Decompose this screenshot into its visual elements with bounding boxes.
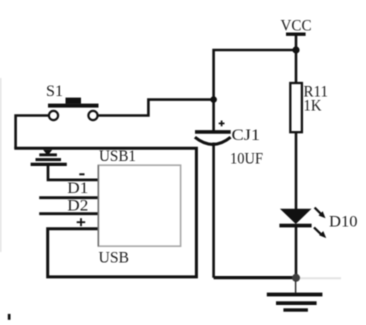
wire: node A up and across to VCC node	[214, 50, 296, 100]
node A junction dot	[210, 96, 217, 103]
wire: capacitor CJ1 to bottom run	[212, 143, 215, 278]
capacitor CJ1 top plate	[195, 130, 231, 134]
wire: outer loop (bottom net) top run, right side, bottom run, left riser and + pin	[14, 148, 196, 277]
wire: ground to minus pin	[48, 166, 98, 180]
connector USB1 body	[98, 165, 180, 246]
capacitor CJ1 curved plate	[195, 137, 231, 144]
switch S1 button cap	[66, 98, 82, 104]
ground (right) bar 1	[267, 293, 323, 297]
wire: S1 left terminal to left vertical drop	[16, 116, 49, 149]
corner mark	[8, 314, 11, 320]
edge artifact left border	[0, 78, 2, 252]
svg-text:D10: D10	[329, 213, 358, 230]
LED D10 cathode bar	[279, 224, 311, 228]
VCC node junction dot	[292, 46, 299, 53]
svg-text:CJ1: CJ1	[232, 127, 261, 144]
wire: VCC bar stub	[295, 34, 298, 50]
resistor R11 body	[290, 83, 302, 132]
pin wire D1	[39, 196, 98, 199]
svg-text:D2: D2	[67, 197, 88, 214]
svg-text:1K: 1K	[304, 98, 322, 115]
wire: VCC node to resistor R11	[295, 50, 298, 84]
ground (right) bar 2	[276, 301, 317, 305]
pin label plus	[77, 218, 86, 226]
wire: LED to ground junction	[295, 224, 298, 278]
ground (left) bar 2	[36, 158, 62, 161]
ground junction dot	[292, 274, 300, 282]
wire: bottom run from capacitor to ground junction	[214, 276, 297, 279]
wire: node A down to capacitor CJ1	[212, 100, 215, 131]
LED D10 triangle	[280, 209, 312, 224]
pin wire D2	[39, 212, 98, 215]
svg-text:10UF: 10UF	[230, 150, 263, 167]
LED D10 arrow 1	[315, 208, 326, 219]
connector USB1 left edge	[97, 165, 99, 246]
VCC power symbol bar	[286, 33, 306, 36]
LED D10 arrow 2	[314, 227, 326, 238]
ground (left) arrow	[43, 150, 52, 156]
edge artifact faint wire right of junction	[299, 277, 341, 279]
ground (left) bar 3	[31, 163, 67, 166]
wire: junction to ground symbol	[295, 281, 297, 293]
switch S1 left contact	[49, 111, 58, 120]
pin label minus	[79, 173, 84, 175]
svg-text:VCC: VCC	[281, 17, 312, 34]
svg-text:D1: D1	[67, 180, 88, 197]
svg-text:USB: USB	[99, 249, 130, 266]
svg-text:S1: S1	[46, 83, 63, 100]
ground (right) bar 3	[283, 308, 308, 311]
wire: S1 right terminal with step up to node A	[98, 100, 214, 116]
ground (left) bar 1	[39, 153, 57, 156]
switch S1 right contact	[88, 111, 97, 120]
capacitor CJ1 plus sign	[219, 121, 225, 127]
svg-text:USB1: USB1	[99, 148, 136, 165]
wire: R11 to LED D10	[295, 132, 298, 210]
